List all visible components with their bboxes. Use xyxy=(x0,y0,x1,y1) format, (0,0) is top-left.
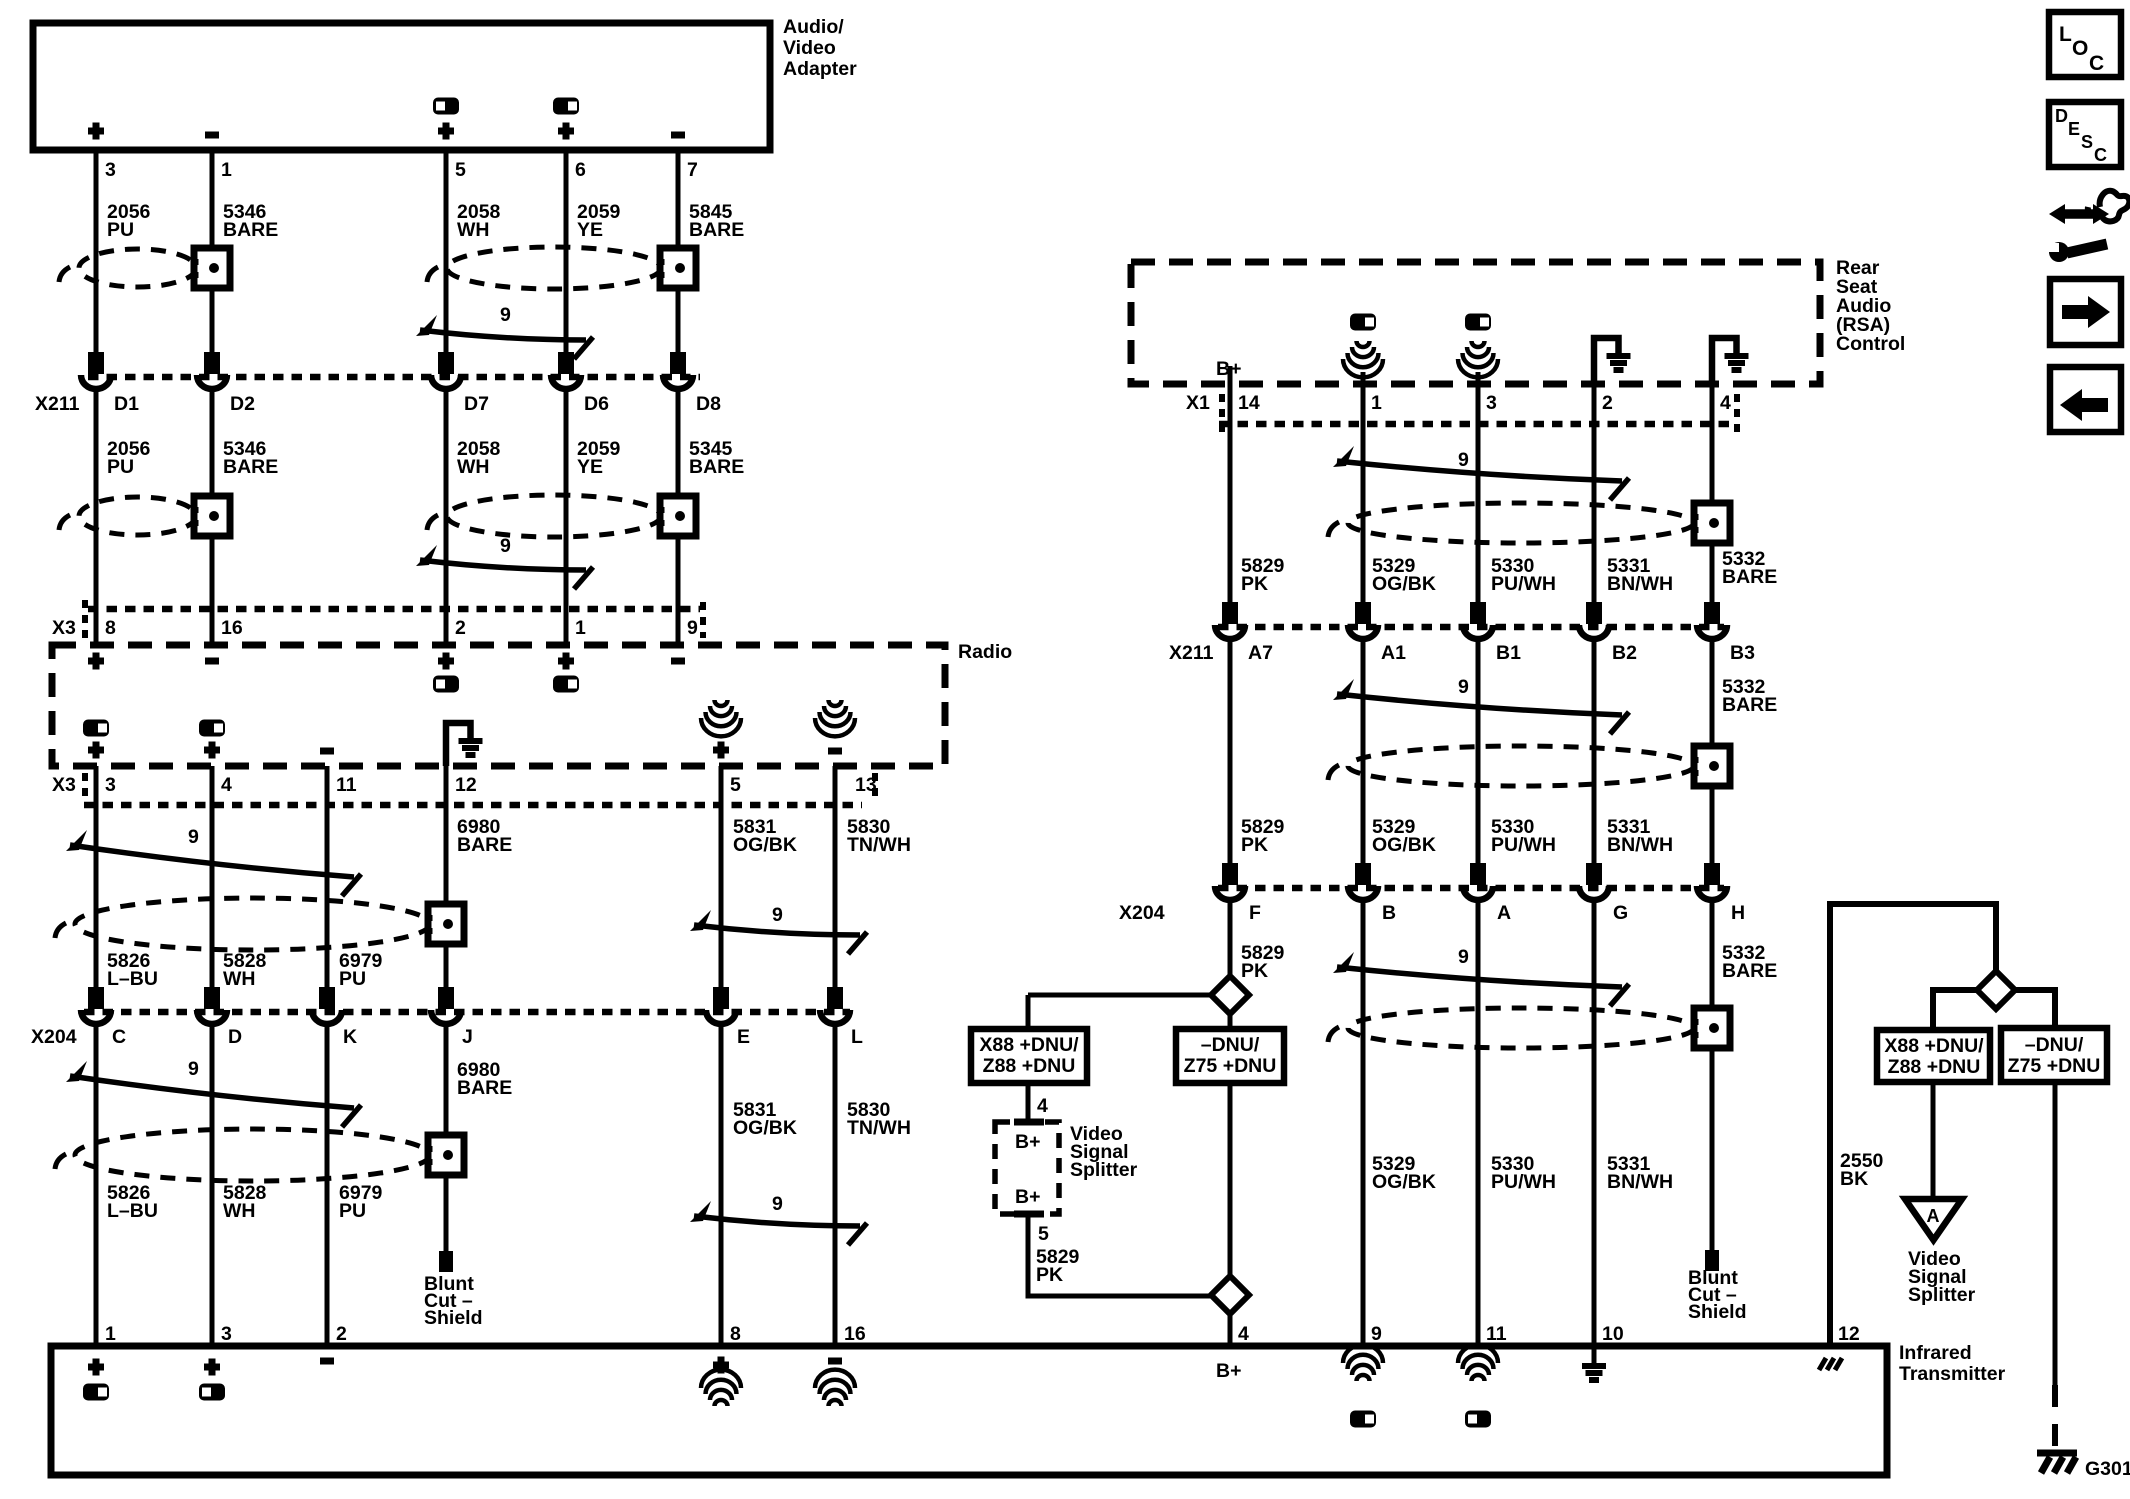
svg-text:E: E xyxy=(2068,119,2080,139)
svg-text:PU: PU xyxy=(339,968,366,990)
blunt cut shield right xyxy=(1688,1250,1747,1323)
drain arrow 9 mid section xyxy=(416,535,593,589)
svg-text:9: 9 xyxy=(772,904,783,926)
svg-text:B1: B1 xyxy=(1496,642,1521,664)
connector X3 top row xyxy=(52,600,703,640)
svg-text:3: 3 xyxy=(221,1323,232,1345)
svg-text:Splitter: Splitter xyxy=(1070,1159,1138,1181)
svg-text:G: G xyxy=(1613,902,1628,924)
svg-text:Radio: Radio xyxy=(958,641,1012,663)
svg-text:–DNU/: –DNU/ xyxy=(2025,1034,2084,1056)
svg-text:Shield: Shield xyxy=(1688,1301,1747,1323)
svg-text:9: 9 xyxy=(188,1058,199,1080)
svg-text:Infrared: Infrared xyxy=(1899,1342,1972,1364)
-DNU / Z75 +DNU box left xyxy=(1176,1029,1284,1083)
wires X211 to radio X3 xyxy=(96,390,678,645)
svg-text:YE: YE xyxy=(577,456,603,478)
DESC icon button xyxy=(2049,102,2121,167)
A/V adapter pin symbols xyxy=(88,98,685,140)
svg-text:K: K xyxy=(343,1026,357,1048)
transmitter right pin symbols xyxy=(1216,1345,1498,1428)
wires X204 to infrared transmitter xyxy=(96,1025,835,1346)
twisted pair ellipse right row 3 xyxy=(1328,1008,1694,1048)
twisted pair ellipse row B left xyxy=(59,497,196,535)
wire labels 5826 L-BU / 5828 WH / 6979 PU upper xyxy=(107,950,383,990)
twisted pair ellipse row D xyxy=(55,1129,430,1181)
svg-text:X211: X211 xyxy=(35,393,80,415)
wires X211 right to X204 right xyxy=(1230,640,1712,863)
svg-text:BARE: BARE xyxy=(1722,694,1777,716)
svg-text:TN/WH: TN/WH xyxy=(847,1117,911,1139)
Audio/Video Adapter box xyxy=(33,16,857,150)
svg-text:Control: Control xyxy=(1836,333,1905,355)
connector X1 row xyxy=(1186,392,1737,438)
svg-text:PU: PU xyxy=(107,456,134,478)
svg-text:12: 12 xyxy=(1838,1323,1860,1345)
wire labels 2056 PU / 5346 BARE / 2058 WH / 2059 YE / 5345 BARE mid section xyxy=(107,438,744,478)
svg-text:WH: WH xyxy=(457,456,490,478)
svg-text:5: 5 xyxy=(1038,1223,1049,1245)
drain arrow 9 right section 2 xyxy=(1333,676,1629,734)
svg-text:YE: YE xyxy=(577,219,603,241)
svg-text:X1: X1 xyxy=(1186,392,1210,414)
splice diamond on 5829 PK upper xyxy=(1211,976,1249,1029)
LOC icon button xyxy=(2049,12,2121,77)
svg-text:9: 9 xyxy=(500,304,511,326)
svg-text:WH: WH xyxy=(223,968,256,990)
svg-text:3: 3 xyxy=(105,774,116,796)
svg-text:B+: B+ xyxy=(1015,1131,1040,1153)
svg-text:S: S xyxy=(2081,132,2093,152)
wire labels 5826 L-BU / 5828 WH / 6979 PU lower xyxy=(107,1182,383,1222)
svg-text:1: 1 xyxy=(575,617,586,639)
svg-text:C: C xyxy=(112,1026,126,1048)
svg-text:OG/BK: OG/BK xyxy=(1372,1171,1436,1193)
svg-text:3: 3 xyxy=(1486,392,1497,414)
svg-text:3: 3 xyxy=(105,159,116,181)
twisted pair ellipse row A left xyxy=(59,249,196,287)
svg-text:B+: B+ xyxy=(1015,1186,1040,1208)
svg-text:BARE: BARE xyxy=(457,1077,512,1099)
svg-text:Adapter: Adapter xyxy=(783,58,857,80)
svg-text:BN/WH: BN/WH xyxy=(1607,1171,1673,1193)
wire labels 5829 PK / 5329 OG/BK / 5330 PU/WH / 5331 BN/WH / 5332 BARE xyxy=(1241,548,1777,595)
shield terminal on 5332 row 3 xyxy=(1694,1008,1730,1048)
back arrow button xyxy=(2050,367,2121,432)
wire label 5332 BARE below X204 xyxy=(1722,942,1777,982)
svg-text:PK: PK xyxy=(1036,1264,1063,1286)
svg-text:PU/WH: PU/WH xyxy=(1491,573,1556,595)
RSA ground symbol pin 4 xyxy=(1712,338,1749,384)
wires X204 right to transmitter xyxy=(1363,901,1712,1346)
radio internal ground at pin 12 xyxy=(446,723,483,766)
svg-text:D1: D1 xyxy=(114,393,139,415)
svg-text:Audio/: Audio/ xyxy=(783,16,844,38)
svg-text:4: 4 xyxy=(221,774,232,796)
svg-text:D: D xyxy=(228,1026,242,1048)
svg-text:Shield: Shield xyxy=(424,1307,483,1329)
wire 5829 PK from X204 F to splice xyxy=(1230,901,1285,982)
wire labels 2056 PU / 5346 BARE / 2058 WH / 2059 YE / 5845 BARE xyxy=(107,201,744,241)
drain arrow 9 left of radio xyxy=(66,826,361,896)
connector X204 row left xyxy=(31,987,863,1048)
svg-text:BN/WH: BN/WH xyxy=(1607,834,1673,856)
svg-text:5: 5 xyxy=(455,159,466,181)
svg-text:16: 16 xyxy=(844,1323,866,1345)
svg-text:D8: D8 xyxy=(696,393,721,415)
svg-text:PK: PK xyxy=(1241,834,1268,856)
Radio dashed box xyxy=(52,641,1012,766)
wires from A/V adapter to X211 xyxy=(96,150,678,354)
wire labels right mid 5829 PK / 5329 OG/BK / 5330 PU/WH / 5331 BN/WH xyxy=(1241,816,1673,856)
branch wire to X88 DNU box left xyxy=(1028,995,1211,1029)
video signal splitter triangle A xyxy=(1905,1199,1976,1306)
svg-text:H: H xyxy=(1731,902,1745,924)
svg-text:BARE: BARE xyxy=(457,834,512,856)
svg-text:TN/WH: TN/WH xyxy=(847,834,911,856)
wire to video signal splitter triangle xyxy=(1931,1082,1936,1199)
svg-text:F: F xyxy=(1249,902,1261,924)
svg-text:X3: X3 xyxy=(52,617,76,639)
svg-text:X3: X3 xyxy=(52,774,76,796)
svg-text:4: 4 xyxy=(1720,392,1731,414)
svg-text:J: J xyxy=(462,1026,473,1048)
svg-text:9: 9 xyxy=(772,1193,783,1215)
svg-text:L: L xyxy=(2059,23,2072,46)
svg-text:A1: A1 xyxy=(1381,642,1406,664)
twisted pair ellipse right row 1 xyxy=(1328,503,1694,543)
svg-text:BARE: BARE xyxy=(1722,960,1777,982)
wire label 5332 BARE below X211 xyxy=(1722,676,1777,716)
shield terminal on wire 6980 row C xyxy=(428,904,464,944)
splice diamond on 5829 PK lower xyxy=(1211,1276,1249,1346)
svg-text:B: B xyxy=(1382,902,1396,924)
radio top-row pin symbols xyxy=(88,653,685,693)
svg-text:4: 4 xyxy=(1037,1095,1048,1117)
radio bottom pin numbers 3 4 11 12 5 13 xyxy=(52,774,877,796)
twisted pair ellipse row B right xyxy=(427,495,661,537)
svg-text:BARE: BARE xyxy=(1722,566,1777,588)
svg-text:D: D xyxy=(2055,106,2068,126)
svg-text:PK: PK xyxy=(1241,573,1268,595)
svg-text:B+: B+ xyxy=(1216,1360,1241,1382)
svg-text:D2: D2 xyxy=(230,393,255,415)
svg-text:L–BU: L–BU xyxy=(107,1200,158,1222)
double-arrow wrench icon xyxy=(2049,191,2129,262)
svg-text:PU: PU xyxy=(107,219,134,241)
svg-text:X88 +DNU/: X88 +DNU/ xyxy=(979,1034,1079,1056)
svg-text:9: 9 xyxy=(188,826,199,848)
wire splitter pin 5 to splice xyxy=(1028,1214,1212,1296)
RSA ground symbol pin 2 xyxy=(1594,338,1631,384)
wires RSA to X211 right xyxy=(1230,384,1712,604)
svg-text:9: 9 xyxy=(1458,676,1469,698)
svg-text:9: 9 xyxy=(687,617,698,639)
infrared transmitter left pin symbols xyxy=(83,1357,855,1407)
svg-text:PU: PU xyxy=(339,1200,366,1222)
connector X211 row right xyxy=(1169,602,1755,664)
wire labels right lower 5329 OG/BK / 5330 PU/WH / 5331 BN/WH xyxy=(1372,1153,1673,1193)
svg-text:B2: B2 xyxy=(1612,642,1637,664)
svg-text:OG/BK: OG/BK xyxy=(733,1117,797,1139)
svg-text:9: 9 xyxy=(1458,449,1469,471)
-DNU / Z75 +DNU box right xyxy=(2001,1028,2107,1082)
wire labels 6980 BARE / 5831 OG/BK / 5830 TN/WH upper xyxy=(457,816,911,856)
connector X204 row right xyxy=(1119,863,1745,924)
svg-text:BARE: BARE xyxy=(223,456,278,478)
shield terminal on 5332 row 2 xyxy=(1694,746,1730,786)
svg-text:D6: D6 xyxy=(584,393,609,415)
wire labels 5831 OG/BK / 5830 TN/WH lower xyxy=(733,1099,911,1139)
svg-text:7: 7 xyxy=(687,159,698,181)
svg-text:16: 16 xyxy=(221,617,243,639)
svg-text:4: 4 xyxy=(1238,1323,1249,1345)
svg-text:8: 8 xyxy=(730,1323,741,1345)
transmitter right pin numbers 4 9 11 10 12 xyxy=(1238,1323,1860,1345)
radio bottom-row pin symbols xyxy=(83,700,855,759)
drain arrow 9 between E and L xyxy=(690,904,867,954)
svg-text:9: 9 xyxy=(500,535,511,557)
svg-text:OG/BK: OG/BK xyxy=(1372,834,1436,856)
svg-text:A: A xyxy=(1497,902,1511,924)
svg-text:WH: WH xyxy=(223,1200,256,1222)
twisted pair ellipse row C xyxy=(55,898,430,950)
connector X3 bottom row xyxy=(84,773,875,805)
svg-text:Transmitter: Transmitter xyxy=(1899,1363,2006,1385)
svg-text:L–BU: L–BU xyxy=(107,968,158,990)
transmitter chassis ground pin 12 xyxy=(1819,1358,1842,1370)
svg-text:11: 11 xyxy=(336,774,357,796)
svg-text:BARE: BARE xyxy=(223,219,278,241)
Rear Seat Audio RSA Control dashed box xyxy=(1131,257,1905,384)
svg-text:8: 8 xyxy=(105,617,116,639)
wire 2550 BK xyxy=(1830,904,1996,1346)
blunt cut shield left xyxy=(424,1251,483,1329)
svg-text:X88 +DNU/: X88 +DNU/ xyxy=(1884,1035,1984,1057)
svg-text:OG/BK: OG/BK xyxy=(733,834,797,856)
shield terminal on wire 6980 row D xyxy=(428,1135,464,1175)
svg-text:PU/WH: PU/WH xyxy=(1491,1171,1556,1193)
wire -DNU right to G301 xyxy=(2053,1082,2058,1448)
svg-text:X204: X204 xyxy=(1119,902,1165,924)
drain arrow 9 below X204 E-L xyxy=(690,1193,867,1245)
transmitter ground pin 10 xyxy=(1582,1349,1606,1380)
svg-text:BARE: BARE xyxy=(689,456,744,478)
svg-text:A: A xyxy=(1927,1206,1940,1226)
svg-text:WH: WH xyxy=(457,219,490,241)
Infrared Transmitter box xyxy=(51,1342,2006,1475)
wire label 6980 BARE lower xyxy=(457,1059,512,1099)
svg-text:2: 2 xyxy=(1602,392,1613,414)
svg-text:1: 1 xyxy=(105,1323,116,1345)
connector X211 row left xyxy=(35,352,721,415)
svg-text:1: 1 xyxy=(1371,392,1382,414)
svg-text:C: C xyxy=(2094,145,2107,165)
shield terminal on wire 5845 row A xyxy=(660,248,696,288)
infrared transmitter pin numbers left xyxy=(105,1323,866,1345)
shield terminal on 5332 row 1 xyxy=(1694,503,1730,543)
RSA speaker/antenna icons pins 1 and 3 xyxy=(1343,314,1498,385)
svg-text:1: 1 xyxy=(221,159,232,181)
drain arrow 9 below X204 left xyxy=(66,1058,361,1127)
wire -DNU box to lower splice xyxy=(1228,1083,1233,1277)
svg-text:O: O xyxy=(2072,37,2088,60)
svg-text:Z88 +DNU: Z88 +DNU xyxy=(983,1055,1076,1077)
svg-text:Splitter: Splitter xyxy=(1908,1284,1976,1306)
drain arrow 9 top section xyxy=(416,304,593,359)
drain arrow 9 right section 1 xyxy=(1333,446,1629,500)
svg-text:PK: PK xyxy=(1241,960,1268,982)
svg-text:2: 2 xyxy=(336,1323,347,1345)
svg-text:Video: Video xyxy=(783,37,836,59)
drain arrow 9 right section 3 xyxy=(1333,946,1629,1006)
chassis ground G301 xyxy=(2037,1453,2130,1480)
svg-text:–DNU/: –DNU/ xyxy=(1201,1034,1260,1056)
Video Signal Splitter dashed box left xyxy=(995,1122,1138,1214)
svg-text:OG/BK: OG/BK xyxy=(1372,573,1436,595)
svg-text:X211: X211 xyxy=(1169,642,1214,664)
svg-text:A7: A7 xyxy=(1248,642,1273,664)
shield terminal on wire 5345 row B xyxy=(660,496,696,536)
twisted pair ellipse right row 2 xyxy=(1328,746,1694,786)
svg-text:6: 6 xyxy=(575,159,586,181)
wires radio to X204 xyxy=(96,766,835,988)
svg-text:2: 2 xyxy=(455,617,466,639)
svg-text:BARE: BARE xyxy=(689,219,744,241)
forward arrow button xyxy=(2050,279,2121,345)
svg-text:9: 9 xyxy=(1458,946,1469,968)
svg-text:BN/WH: BN/WH xyxy=(1607,573,1673,595)
svg-text:14: 14 xyxy=(1238,392,1260,414)
twisted pair ellipse row A right xyxy=(427,247,661,289)
svg-text:L: L xyxy=(851,1026,863,1048)
svg-text:BK: BK xyxy=(1840,1168,1868,1190)
svg-text:G301: G301 xyxy=(2085,1458,2130,1480)
svg-text:11: 11 xyxy=(1486,1323,1507,1345)
svg-text:PU/WH: PU/WH xyxy=(1491,834,1556,856)
branch wires to DNU boxes right xyxy=(1933,990,2055,1030)
splice diamond right xyxy=(1977,971,2015,1009)
svg-text:Z75 +DNU: Z75 +DNU xyxy=(1184,1055,1277,1077)
wire X88 box to video signal splitter pin 4 xyxy=(1028,1083,1048,1122)
RSA B+ label and pin stub xyxy=(1216,358,1241,384)
shield terminal on wire 5346 row A xyxy=(194,248,230,288)
svg-text:Z88 +DNU: Z88 +DNU xyxy=(1888,1056,1981,1078)
svg-text:9: 9 xyxy=(1371,1323,1382,1345)
svg-text:X204: X204 xyxy=(31,1026,77,1048)
shield terminal on wire 5346 row B xyxy=(194,496,230,536)
svg-text:C: C xyxy=(2089,52,2104,75)
svg-text:10: 10 xyxy=(1602,1323,1624,1345)
X88 +DNU / Z88 +DNU box left xyxy=(971,1029,1087,1083)
A/V adapter pin numbers 3 1 5 6 7 xyxy=(105,159,698,181)
svg-text:E: E xyxy=(737,1026,750,1048)
svg-text:5: 5 xyxy=(730,774,741,796)
X88 +DNU / Z88 +DNU box right xyxy=(1877,1030,1990,1082)
svg-text:Z75 +DNU: Z75 +DNU xyxy=(2008,1055,2101,1077)
svg-text:12: 12 xyxy=(455,774,477,796)
svg-text:B3: B3 xyxy=(1730,642,1755,664)
svg-text:D7: D7 xyxy=(464,393,489,415)
